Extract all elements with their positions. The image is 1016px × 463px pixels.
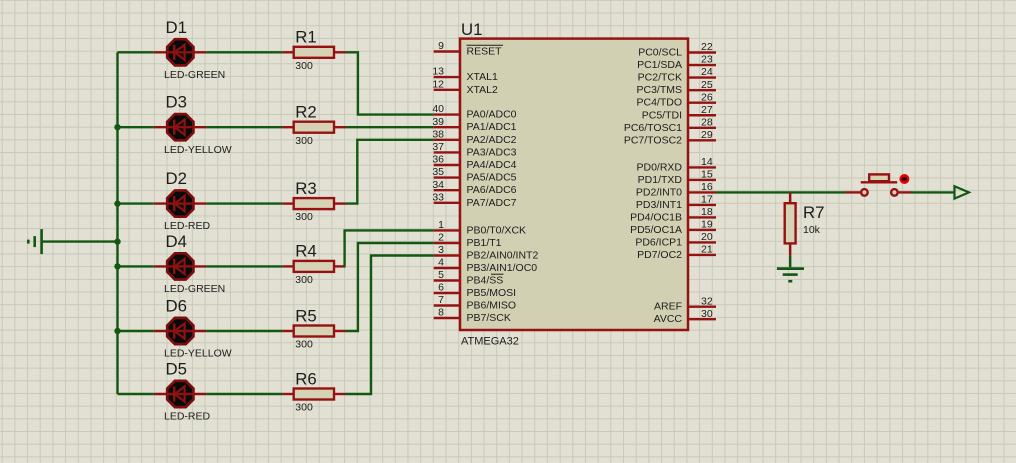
U1 pin 35 (PA5/ADC5) <box>432 166 516 183</box>
svg-text:12: 12 <box>432 78 444 90</box>
wire bus to D1 <box>118 51 154 53</box>
wire D6 to R5 <box>206 330 282 332</box>
wire vertical bus (cathode rail) <box>116 52 118 394</box>
svg-text:R2: R2 <box>295 103 316 122</box>
IC U1 body (ATMEGA32) <box>460 39 688 330</box>
svg-text:PD4/OC1B: PD4/OC1B <box>630 211 682 223</box>
svg-text:7: 7 <box>438 294 444 306</box>
svg-text:PC7/TOSC2: PC7/TOSC2 <box>624 134 682 146</box>
svg-text:38: 38 <box>432 128 444 140</box>
svg-text:37: 37 <box>432 141 444 153</box>
svg-text:D3: D3 <box>166 93 187 112</box>
LED D6 (LED-YELLOW) <box>154 318 207 344</box>
svg-text:PC2/TCK: PC2/TCK <box>638 72 682 84</box>
svg-text:R1: R1 <box>295 28 316 47</box>
svg-text:AVCC: AVCC <box>654 313 683 325</box>
svg-text:25: 25 <box>701 79 713 91</box>
wire R2 to U1 pin 39 <box>346 126 434 128</box>
svg-text:PC4/TDO: PC4/TDO <box>636 97 682 109</box>
svg-text:LED-YELLOW: LED-YELLOW <box>164 348 232 360</box>
svg-text:29: 29 <box>701 129 713 141</box>
U1 pin 40 (PA0/ADC0) <box>432 103 516 120</box>
wire bus to D5 <box>118 393 154 395</box>
wire D4 to R4 <box>206 265 282 267</box>
wire ground to bus <box>42 240 118 242</box>
LED D2 (LED-RED) <box>154 191 207 217</box>
svg-text:1: 1 <box>438 219 444 231</box>
U1 pin 13 (XTAL1) <box>432 66 498 83</box>
svg-text:PC3/TMS: PC3/TMS <box>636 84 682 96</box>
U1 pin 32 (AREF) <box>654 295 716 312</box>
junction bus/D2 row <box>114 200 120 206</box>
U1 pin 38 (PA2/ADC2) <box>432 128 516 145</box>
U1 pin 8 (PB7/SCK) <box>434 307 511 324</box>
wire D1 to R1 <box>206 51 282 53</box>
U1 pin 26 (PC4/TDO) <box>636 91 716 108</box>
U1 pin 20 (PD6/ICP1) <box>635 231 716 248</box>
svg-text:R6: R6 <box>295 369 316 388</box>
svg-text:27: 27 <box>701 104 713 116</box>
svg-text:PB4/SS: PB4/SS <box>467 275 504 287</box>
svg-text:PC5/TDI: PC5/TDI <box>642 109 682 121</box>
svg-text:33: 33 <box>432 191 444 203</box>
svg-text:LED-YELLOW: LED-YELLOW <box>164 144 232 156</box>
svg-text:39: 39 <box>432 116 444 128</box>
svg-text:8: 8 <box>438 307 444 319</box>
wire bus to D3 <box>118 126 154 128</box>
svg-text:PD0/RXD: PD0/RXD <box>636 161 682 173</box>
svg-text:16: 16 <box>701 181 713 193</box>
resistor R3 (300) <box>282 198 345 209</box>
svg-text:LED-GREEN: LED-GREEN <box>164 69 225 81</box>
svg-text:26: 26 <box>701 91 713 103</box>
U1 pin 19 (PD5/OC1A) <box>630 219 716 236</box>
junction bus/D3 row <box>114 124 120 130</box>
svg-text:4: 4 <box>438 257 444 269</box>
U1 pin 14 (PD0/RXD) <box>636 156 716 173</box>
svg-text:32: 32 <box>701 295 713 307</box>
wire R4 to U1 pin 1 <box>345 230 434 266</box>
svg-text:300: 300 <box>295 402 313 414</box>
svg-text:9: 9 <box>438 40 444 52</box>
svg-text:34: 34 <box>432 179 444 191</box>
LED D1 (LED-GREEN) <box>154 39 207 65</box>
U1 pin 18 (PD4/OC1B) <box>630 206 716 223</box>
U1 pin 30 (AVCC) <box>654 308 716 325</box>
svg-text:22: 22 <box>701 41 713 53</box>
LED D5 (LED-RED) <box>154 381 207 407</box>
U1 pin 34 (PA6/ADC6) <box>432 179 516 196</box>
U1 pin 3 (PB2/AIN0/INT2) <box>434 244 539 261</box>
svg-text:PC0/SCL: PC0/SCL <box>638 47 682 59</box>
resistor R6 (300) <box>282 389 345 400</box>
U1 pin 9 (RESET) <box>434 40 503 57</box>
svg-text:LED-RED: LED-RED <box>164 220 211 232</box>
ground (left, net GND) <box>28 229 41 254</box>
wire bus to D4 <box>118 265 154 267</box>
svg-text:PB2/AIN0/INT2: PB2/AIN0/INT2 <box>467 250 539 262</box>
svg-text:PA7/ADC7: PA7/ADC7 <box>467 197 517 209</box>
svg-text:PD2/INT0: PD2/INT0 <box>636 186 682 198</box>
wire R3 to U1 pin 38 <box>346 140 434 204</box>
svg-text:19: 19 <box>701 219 713 231</box>
svg-text:XTAL1: XTAL1 <box>467 71 498 83</box>
svg-text:LED-RED: LED-RED <box>164 411 211 423</box>
svg-text:17: 17 <box>701 194 713 206</box>
svg-text:300: 300 <box>295 135 313 147</box>
U1 pin 15 (PD1/TXD) <box>638 169 716 186</box>
svg-text:14: 14 <box>701 156 713 168</box>
svg-text:LED-GREEN: LED-GREEN <box>164 283 225 295</box>
resistor R1 (300) <box>282 47 345 58</box>
U1 pin 28 (PC6/TOSC1) <box>624 116 716 133</box>
svg-text:3: 3 <box>438 244 444 256</box>
U1 pin 21 (PD7/OC2) <box>637 244 716 261</box>
svg-text:PD3/INT1: PD3/INT1 <box>636 199 682 211</box>
svg-text:PA0/ADC0: PA0/ADC0 <box>467 109 517 121</box>
svg-text:PA1/ADC1: PA1/ADC1 <box>467 121 517 133</box>
svg-text:10k: 10k <box>803 224 821 236</box>
junction bus/ground <box>114 238 120 244</box>
svg-text:PB6/MISO: PB6/MISO <box>467 300 517 312</box>
U1 pin 22 (PC0/SCL) <box>638 41 716 58</box>
svg-text:20: 20 <box>701 231 713 243</box>
wire R6 to U1 pin 3 <box>346 256 434 395</box>
LED D3 (LED-YELLOW) <box>154 114 207 140</box>
resistor R4 (300) <box>282 261 345 272</box>
resistor R2 (300) <box>282 122 345 133</box>
svg-text:5: 5 <box>438 269 444 281</box>
U1 pin 16 (PD2/INT0) <box>636 181 716 198</box>
svg-text:PD5/OC1A: PD5/OC1A <box>630 224 682 236</box>
svg-text:ATMEGA32: ATMEGA32 <box>461 336 519 348</box>
svg-text:30: 30 <box>701 308 713 320</box>
svg-text:300: 300 <box>295 211 313 223</box>
svg-text:R5: R5 <box>295 306 316 325</box>
svg-text:15: 15 <box>701 169 713 181</box>
U1 pin 23 (PC1/SDA) <box>637 54 716 71</box>
svg-text:40: 40 <box>432 103 444 115</box>
svg-text:PD7/OC2: PD7/OC2 <box>637 249 682 261</box>
U1 pin 1 (PB0/T0/XCK) <box>434 219 526 236</box>
svg-text:18: 18 <box>701 206 713 218</box>
svg-text:R4: R4 <box>295 242 316 261</box>
svg-text:PA3/ADC3: PA3/ADC3 <box>467 146 517 158</box>
svg-text:R3: R3 <box>295 179 316 198</box>
U1 pin 25 (PC3/TMS) <box>636 79 716 96</box>
resistor R5 (300) <box>282 326 345 337</box>
svg-text:24: 24 <box>701 66 713 78</box>
svg-text:PD6/ICP1: PD6/ICP1 <box>635 236 682 248</box>
svg-text:D2: D2 <box>166 169 187 188</box>
wire R5 to U1 pin 2 <box>346 243 434 331</box>
wire D3 to R2 <box>206 126 282 128</box>
U1 pin 39 (PA1/ADC1) <box>432 116 516 133</box>
svg-text:PB1/T1: PB1/T1 <box>467 237 502 249</box>
U1 pin 27 (PC5/TDI) <box>642 104 716 121</box>
U1 pin 24 (PC2/TCK) <box>638 66 716 83</box>
wire R7 to ground <box>789 256 791 268</box>
junction bus/D4 row <box>114 263 120 269</box>
svg-text:PA4/ADC4: PA4/ADC4 <box>467 159 517 171</box>
svg-text:RESET: RESET <box>467 46 503 58</box>
svg-text:300: 300 <box>295 339 313 351</box>
U1 pin 2 (PB1/T1) <box>434 232 502 249</box>
U1 pin 37 (PA3/ADC3) <box>432 141 516 158</box>
wire D5 to R6 <box>206 393 282 395</box>
svg-text:PB7/SCK: PB7/SCK <box>467 312 511 324</box>
svg-text:PD1/TXD: PD1/TXD <box>638 174 683 186</box>
svg-text:D1: D1 <box>166 18 187 37</box>
svg-text:PC6/TOSC1: PC6/TOSC1 <box>624 122 682 134</box>
U1 pin 7 (PB6/MISO) <box>434 294 516 311</box>
svg-text:13: 13 <box>432 66 444 78</box>
wire U1 pin16 to button <box>716 191 845 193</box>
U1 pin 5 (PB4/SS) <box>434 269 504 286</box>
wire D2 to R3 <box>206 202 282 204</box>
svg-text:35: 35 <box>432 166 444 178</box>
ground (below R7) <box>777 269 804 282</box>
output terminal arrow <box>955 186 969 198</box>
U1 pin 29 (PC7/TOSC2) <box>624 129 716 146</box>
svg-text:PB5/MOSI: PB5/MOSI <box>467 287 517 299</box>
svg-text:PB3/AIN1/OC0: PB3/AIN1/OC0 <box>467 262 538 274</box>
svg-text:23: 23 <box>701 54 713 66</box>
U1 pin 6 (PB5/MOSI) <box>434 282 516 299</box>
svg-text:300: 300 <box>295 274 313 286</box>
svg-text:PC1/SDA: PC1/SDA <box>637 59 682 71</box>
wire button to terminal arrow <box>911 191 955 193</box>
push button SW <box>845 174 911 195</box>
svg-text:AREF: AREF <box>654 301 682 313</box>
LED D4 (LED-GREEN) <box>154 253 207 279</box>
svg-text:PB0/T0/XCK: PB0/T0/XCK <box>467 224 527 236</box>
svg-text:2: 2 <box>438 232 444 244</box>
wire bus to D2 <box>118 202 154 204</box>
U1 pin 17 (PD3/INT1) <box>636 194 716 211</box>
svg-text:D6: D6 <box>166 297 187 316</box>
svg-text:PA2/ADC2: PA2/ADC2 <box>467 134 517 146</box>
svg-text:300: 300 <box>295 60 313 72</box>
svg-text:36: 36 <box>432 154 444 166</box>
svg-text:D5: D5 <box>166 360 187 379</box>
svg-text:U1: U1 <box>461 20 482 39</box>
button interactive marker <box>901 175 909 183</box>
U1 pin 12 (XTAL2) <box>432 78 498 95</box>
svg-text:R7: R7 <box>803 203 824 222</box>
U1 pin 33 (PA7/ADC7) <box>432 191 516 208</box>
U1 pin 4 (PB3/AIN1/OC0) <box>434 257 538 274</box>
svg-text:6: 6 <box>438 282 444 294</box>
svg-text:PA5/ADC5: PA5/ADC5 <box>467 172 517 184</box>
svg-text:28: 28 <box>701 116 713 128</box>
resistor R7 (10k) <box>785 192 796 255</box>
svg-text:D4: D4 <box>166 232 187 251</box>
svg-text:PA6/ADC6: PA6/ADC6 <box>467 184 517 196</box>
svg-text:XTAL2: XTAL2 <box>467 84 498 96</box>
junction bus/D6 row <box>114 328 120 334</box>
wire bus to D6 <box>118 330 154 332</box>
U1 pin 36 (PA4/ADC4) <box>432 154 516 171</box>
svg-text:21: 21 <box>701 244 713 256</box>
wire R1 to U1 pin 40 <box>346 52 434 114</box>
